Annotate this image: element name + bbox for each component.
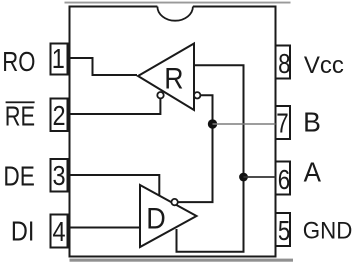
svg-text:2: 2 bbox=[52, 101, 65, 131]
top grey shadow line bbox=[65, 2, 291, 4]
receiver inverting input bubble bbox=[194, 92, 200, 98]
svg-text:RE: RE bbox=[5, 101, 35, 132]
transistor D (driver triangle) bbox=[140, 185, 197, 247]
pin 5 box bbox=[276, 213, 291, 246]
pin 6 box bbox=[276, 162, 291, 195]
svg-text:6: 6 bbox=[278, 165, 290, 196]
svg-text:RO: RO bbox=[2, 47, 35, 78]
wire node A: receiver top input down to driver output bbox=[177, 65, 244, 251]
svg-text:B: B bbox=[303, 106, 321, 138]
receiver enable bubble bbox=[157, 92, 163, 98]
wire node B: receiver bubble to driver bubble bbox=[178, 95, 213, 202]
pin 4 box bbox=[51, 215, 68, 248]
junction node B bbox=[208, 119, 217, 128]
svg-text:5: 5 bbox=[278, 216, 290, 247]
svg-text:3: 3 bbox=[52, 161, 65, 191]
pin 3 box bbox=[51, 159, 68, 192]
wire RO pin1 to receiver apex bbox=[68, 58, 138, 75]
svg-text:GND: GND bbox=[303, 217, 353, 244]
wire DI pin4 to driver input bbox=[68, 227, 141, 229]
notch gap cover bbox=[157, 5, 193, 8]
svg-text:4: 4 bbox=[52, 217, 65, 247]
notch (index semicircle) bbox=[157, 7, 193, 21]
IC body U1 (8-pin DIP outline) bbox=[70, 7, 276, 257]
wire RE pin2 to receiver enable bubble bbox=[68, 99, 161, 114]
pin 2 box bbox=[51, 99, 68, 132]
junction node A bbox=[239, 173, 248, 182]
label RE overline bbox=[6, 101, 35, 103]
svg-text:1: 1 bbox=[52, 44, 65, 74]
svg-text:R: R bbox=[164, 62, 183, 96]
svg-text:Vcc: Vcc bbox=[304, 52, 344, 79]
wire B to pin 7 bbox=[213, 123, 276, 125]
pin 7 box bbox=[276, 106, 291, 139]
svg-text:D: D bbox=[146, 202, 165, 236]
driver inverting output bubble bbox=[171, 199, 177, 205]
bottom grey shadow line bbox=[70, 259, 294, 262]
svg-text:DE: DE bbox=[3, 161, 35, 192]
svg-text:8: 8 bbox=[278, 49, 290, 80]
svg-text:7: 7 bbox=[276, 108, 288, 139]
op-amp R (receiver triangle) bbox=[138, 44, 194, 111]
wire DE pin3 to driver enable bbox=[68, 175, 160, 196]
svg-text:A: A bbox=[304, 157, 321, 188]
pin 8 box bbox=[276, 46, 291, 79]
wire A to pin 6 bbox=[244, 176, 276, 178]
pin 1 box bbox=[51, 44, 68, 75]
svg-text:DI: DI bbox=[11, 217, 35, 247]
